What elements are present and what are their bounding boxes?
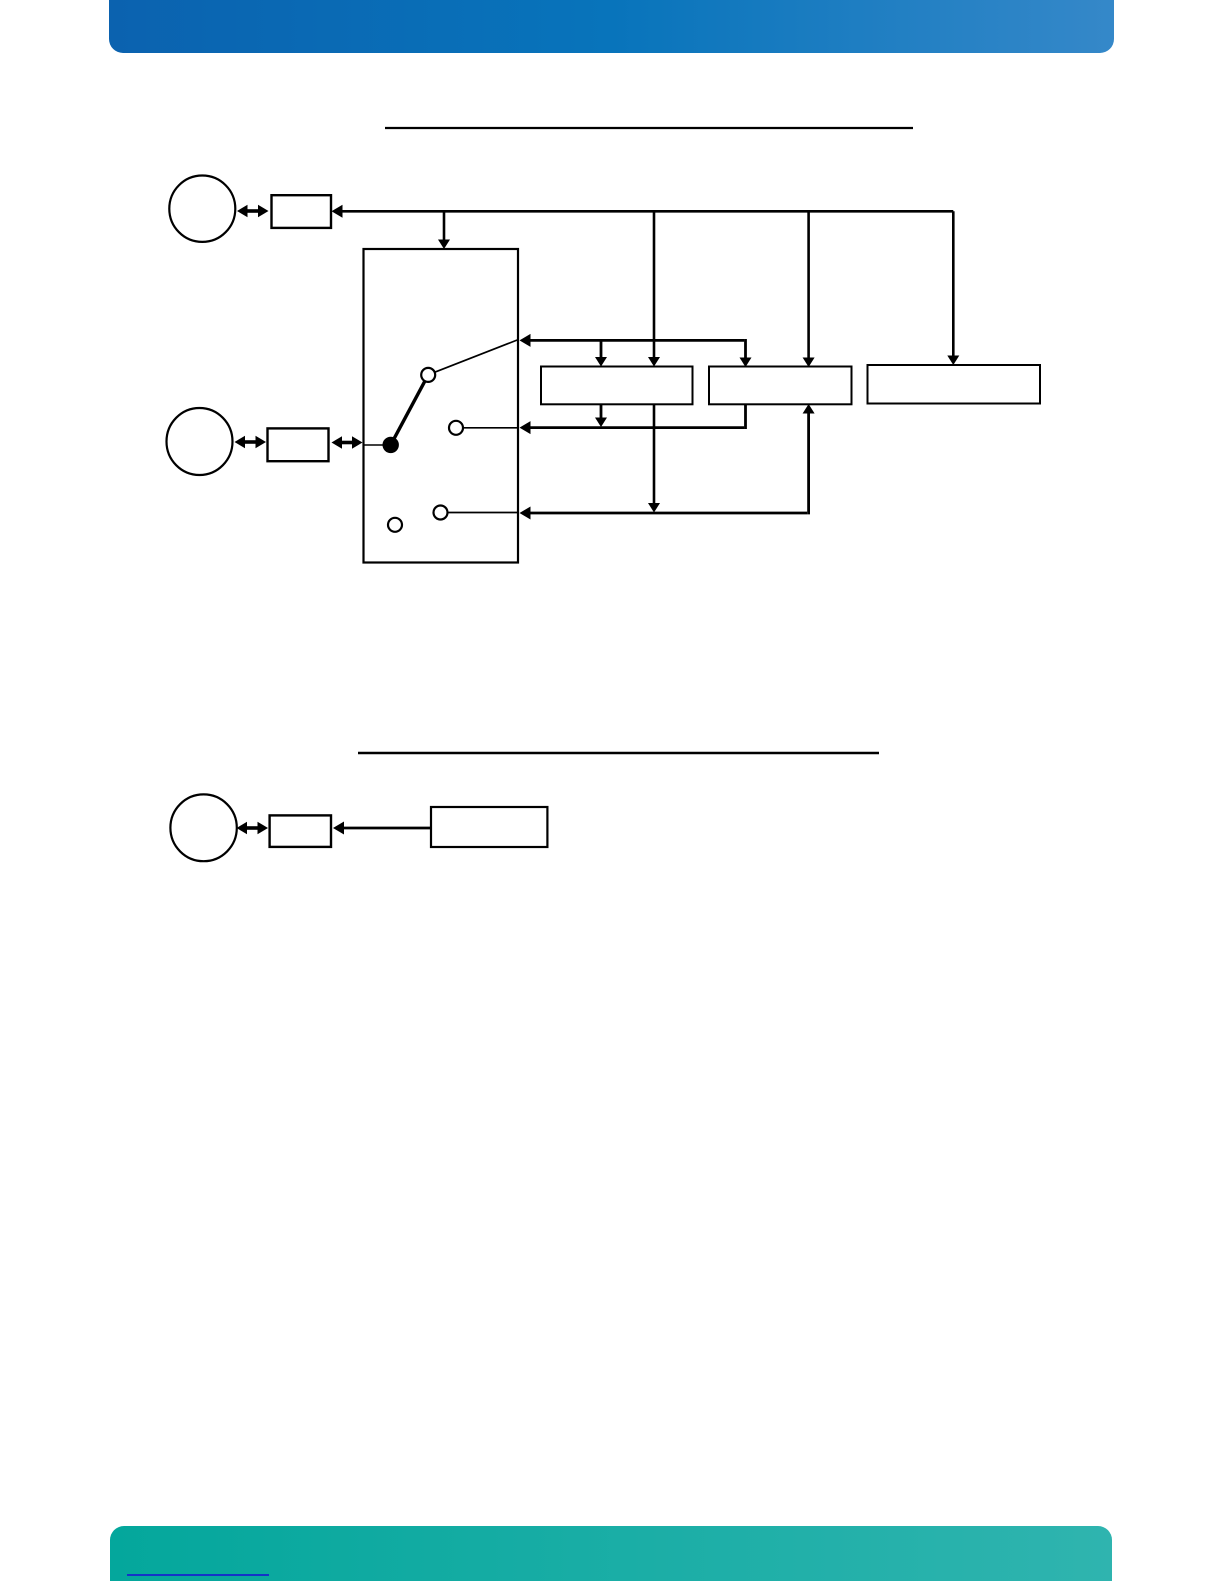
switch common contact (filled)	[384, 438, 398, 452]
circle A	[169, 176, 235, 242]
double arrow rect B to switch box	[332, 436, 363, 448]
footer bar	[110, 1526, 1112, 1581]
rect 2	[709, 367, 852, 405]
circle B	[167, 408, 233, 475]
wire contact 3 to box edge	[448, 512, 519, 514]
rect 3	[868, 365, 1041, 404]
horizontal wire 3 (y513) with left arrowhead into switch box, corner up into rect 2 bottom	[520, 404, 815, 520]
footer link underline	[127, 1574, 269, 1576]
title underline diagram 1	[385, 127, 913, 129]
switch contact 2 (open circle)	[449, 421, 463, 435]
wire contact 2 to box edge	[463, 427, 518, 429]
switch contact 1 (open circle)	[421, 368, 435, 382]
rect A	[272, 195, 332, 228]
stub wire from rect 1 bottom into wire 2	[595, 404, 607, 427]
horizontal wire 1 (y340) with left arrowhead into switch box, corner down into rect 2 top	[520, 334, 752, 367]
switch box	[364, 249, 519, 563]
unconnected contact (open circle)	[388, 518, 402, 532]
wire rect D to rect C with left arrowhead	[333, 822, 431, 835]
wire drop x953.3 from main bus end into rect 3 top	[947, 211, 959, 365]
title underline diagram 2	[358, 752, 879, 754]
wire contact 1 to box edge (diagonal)	[435, 340, 519, 373]
wire from box left edge to switch common	[364, 444, 386, 446]
rect C	[270, 815, 331, 847]
circle C	[170, 794, 236, 861]
wire drop x654 from main bus into rect 1 top	[648, 211, 660, 366]
header bar	[109, 0, 1114, 53]
wire x654 from rect 1 bottom down into horizontal wire 3	[648, 404, 660, 512]
stub wire from wire1 into rect 1 top	[595, 340, 607, 366]
wire drop into switch box top with arrowhead	[438, 211, 450, 249]
double arrow circle A to rect A	[237, 205, 269, 217]
switch lever	[391, 375, 429, 445]
rect B	[268, 428, 329, 461]
switch contact 3 (open circle)	[434, 506, 448, 520]
main bus wire (top horizontal) with left arrowhead into rect A	[332, 205, 954, 218]
double arrow circle B to rect B	[235, 436, 267, 448]
rect 1	[541, 367, 693, 405]
rect D	[431, 807, 547, 847]
double arrow circle C to rect C	[237, 822, 269, 834]
horizontal wire 2 (y427.6) with left arrowhead into switch box, corner up to rect 2 bottom	[520, 404, 746, 435]
wire drop x808.6 from main bus into rect 2 top	[803, 211, 815, 367]
